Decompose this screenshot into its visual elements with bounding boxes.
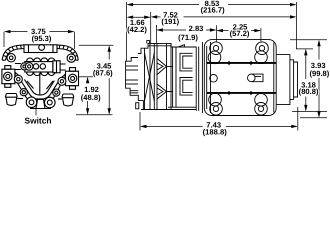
svg-text:(57.2): (57.2) bbox=[230, 29, 250, 38]
svg-text:(216.7): (216.7) bbox=[201, 5, 226, 14]
svg-text:(188.8): (188.8) bbox=[203, 127, 228, 136]
svg-text:(71.9): (71.9) bbox=[178, 33, 198, 42]
svg-text:(99.8): (99.8) bbox=[309, 69, 329, 78]
svg-text:(191): (191) bbox=[161, 17, 179, 26]
svg-text:(80.8): (80.8) bbox=[299, 87, 319, 96]
svg-text:Switch: Switch bbox=[25, 115, 52, 125]
svg-text:(48.8): (48.8) bbox=[81, 93, 101, 102]
svg-text:(42.2): (42.2) bbox=[127, 25, 147, 34]
svg-text:2.83: 2.83 bbox=[189, 24, 204, 33]
svg-text:(87.6): (87.6) bbox=[93, 69, 113, 78]
svg-text:(95.3): (95.3) bbox=[32, 34, 52, 43]
